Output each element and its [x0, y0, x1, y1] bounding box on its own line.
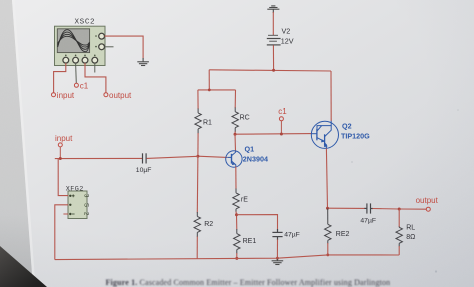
wire top rail to Q2 collector (red)	[330, 71, 332, 121]
transistor Q2 TIP120 darlington	[311, 121, 338, 149]
wire XFG2 com to bottom rail (red)	[55, 205, 68, 260]
battery V2	[267, 35, 281, 45]
wire input tag stub (red)	[59, 147, 61, 159]
ground (right of scope)	[137, 58, 149, 66]
junction cap/rail/ground	[276, 257, 279, 260]
wire ground to V2 (red)	[272, 12, 274, 35]
wire RE1 to bottom rail (red)	[236, 253, 238, 258]
junction feed/sub-rail	[208, 89, 211, 92]
junction rE/RE1/bypass	[235, 213, 238, 216]
wire Q1 emitter to rE (red)	[235, 167, 237, 190]
label Q2	[342, 121, 352, 130]
resistor R1	[195, 109, 201, 134]
label XFG2	[66, 186, 84, 194]
wire c1 tag stub (red)	[280, 121, 282, 134]
wire top rail (red)	[209, 70, 331, 71]
function generator XFG2 body	[68, 191, 89, 219]
wire bypass branch junction to cap (red)	[237, 215, 278, 230]
oscilloscope sine trace bundle	[58, 30, 90, 52]
junction divider/base	[196, 155, 199, 158]
label 47uF (output)	[360, 217, 376, 224]
label 47uF (bypass)	[284, 231, 300, 238]
wire scope terminal1 to input tag (red)	[54, 63, 66, 93]
dust specks	[435, 270, 437, 272]
capacitor C bypass 47uF	[272, 229, 282, 240]
label 10uF	[136, 167, 152, 174]
label RE2	[336, 231, 350, 238]
wire V2 to top rail (red)	[272, 45, 274, 70]
oscilloscope bottom terminals	[63, 55, 98, 64]
wire scope B terminal stub (dark)	[105, 46, 114, 48]
wire XFG2 minus stub (red)	[63, 213, 68, 215]
dark table corner bottom-left	[0, 246, 47, 287]
capacitor C in 10uF	[143, 153, 147, 163]
wire divider junction to Q1 base (red)	[198, 156, 227, 157]
wire RC to c1 node wire (red)	[234, 132, 236, 135]
node input (mid)	[55, 134, 73, 147]
wire Q2 emitter down to output node (red)	[326, 148, 327, 208]
junction RC/collector wire	[234, 133, 237, 136]
wire scope terminal3 to output tag (red)	[85, 63, 106, 93]
paper edge highlight line	[12, 0, 36, 287]
wire output node horizontal (red)	[328, 207, 365, 209]
junction c1 stub	[280, 133, 283, 136]
wire bottom rail (red)	[55, 255, 399, 260]
ground (bottom rail)	[272, 258, 284, 264]
resistor RC	[232, 108, 238, 133]
resistor rE	[233, 189, 239, 213]
label R1	[203, 119, 212, 126]
wire sub-rail to RC (red)	[234, 90, 236, 108]
label RC	[240, 114, 250, 121]
resistor R2	[194, 212, 200, 237]
wire input horizontal to coupling cap (red)	[55, 157, 142, 159]
oscilloscope right terminals	[95, 33, 104, 49]
wire divider junction to R2 (red)	[196, 156, 199, 212]
node c1 (scope side)	[74, 81, 88, 90]
oscilloscope XSC2 label	[75, 19, 96, 27]
resistor RE1	[234, 229, 240, 254]
wire sub-rail to R1 (red)	[197, 90, 199, 109]
junction input stub	[59, 157, 62, 160]
capacitor C out 47uF	[364, 203, 373, 213]
label V2	[282, 27, 291, 36]
caption	[106, 278, 391, 287]
node output (right)	[416, 196, 439, 211]
wire coupling cap to divider junction (red)	[147, 156, 198, 158]
junction RL/output wire	[398, 208, 401, 211]
wire cap to bottom rail (red)	[276, 240, 278, 259]
wire RL top lead (red)	[398, 209, 400, 227]
junction RE1/rail	[235, 257, 238, 260]
wire R2 to bottom rail (red)	[196, 237, 198, 260]
label TIP120G	[341, 131, 370, 140]
node output (scope side)	[104, 91, 132, 100]
wire XFG2 plus to input wire (red)	[58, 159, 68, 196]
wire scope terminal2 to c1 tag (dark)	[75, 63, 78, 83]
wire collector wire down to Q1 (red)	[234, 134, 237, 151]
node input (scope side)	[52, 91, 75, 100]
ground (above V2, rotated up)	[267, 6, 279, 13]
wire RL to bottom rail (red)	[398, 246, 400, 255]
left background band beyond paper edge	[0, 0, 33, 287]
junction V2/top rail	[272, 69, 275, 72]
wire junction to RE1 (red)	[236, 215, 238, 230]
wire R1 to divider junction (red)	[197, 133, 199, 156]
wire cap to RL junction and output tag (red)	[373, 208, 427, 211]
wire scope terminal4 stub (dark)	[94, 63, 96, 72]
label RL	[406, 225, 415, 232]
oscilloscope XSC2 body	[55, 26, 106, 65]
node c1 (mid)	[278, 107, 287, 121]
wire sub-rail R1/RC (red)	[198, 89, 236, 91]
junction emitter/RE2	[326, 207, 329, 210]
resistor RE2	[325, 209, 331, 244]
junction RE2/rail	[326, 254, 329, 257]
wire rail feed down to divider sub-rail (red)	[208, 70, 210, 90]
resistor RL	[396, 227, 402, 247]
label 12V	[281, 37, 294, 46]
wire Q1 collector to Q2 base (red)	[235, 133, 311, 136]
wire RE2 to bottom rail (red)	[327, 243, 329, 255]
transistor Q1	[226, 151, 242, 167]
wire rE to junction (red)	[235, 212, 238, 215]
label rE	[241, 197, 248, 204]
label Q1	[245, 145, 255, 154]
label 8ohm	[406, 234, 415, 241]
label RE1	[243, 238, 257, 245]
label R2	[204, 221, 213, 228]
label 2N3904	[243, 155, 268, 164]
wire scope A terminal to ground (red)	[105, 36, 144, 58]
